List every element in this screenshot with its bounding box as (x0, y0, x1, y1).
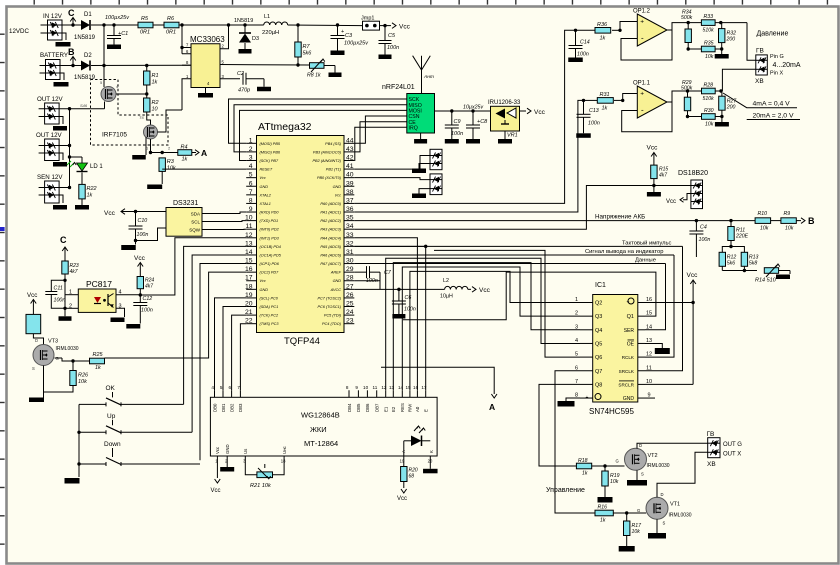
svg-text:R3: R3 (167, 159, 175, 165)
svg-text:+: + (640, 91, 644, 98)
wire battery-voltage net B (354, 213, 755, 222)
switch OK (79, 385, 184, 406)
svg-text:AREF: AREF (330, 271, 342, 275)
svg-text:38: 38 (346, 189, 354, 196)
wire IC1 pin15 Q1 (403, 272, 656, 320)
wire MOSI to pin3 (240, 110, 407, 160)
svg-text:PA4 (ADC4): PA4 (ADC4) (320, 236, 341, 240)
svg-text:RCLK: RCLK (622, 355, 635, 360)
svg-text:100n: 100n (387, 45, 399, 51)
svg-text:XTAL1: XTAL1 (259, 202, 271, 206)
svg-text:L1: L1 (264, 14, 270, 20)
wire OP1.1 output (667, 89, 702, 102)
svg-text:(SCL) PC0: (SCL) PC0 (260, 296, 279, 300)
svg-text:OK: OK (106, 385, 116, 392)
wire AVCC row (354, 288, 444, 291)
node C (68, 8, 76, 27)
svg-text:510k: 510k (703, 96, 715, 102)
svg-text:PB1 (T1): PB1 (T1) (326, 168, 342, 172)
net flag A arrow (381, 367, 497, 412)
svg-text:+: + (627, 299, 630, 305)
wire IC1 pin5 (434, 250, 580, 357)
svg-text:9: 9 (355, 385, 358, 390)
resistor R16 1k (595, 505, 613, 524)
svg-text:R28: R28 (704, 83, 714, 89)
wire MC pin7 pin6 riser (180, 25, 191, 54)
svg-text:DB6: DB6 (365, 403, 370, 412)
svg-text:29: 29 (346, 266, 354, 273)
svg-text:D2: D2 (84, 53, 92, 59)
resistor R15 4k7 (651, 165, 669, 187)
svg-text:RESET: RESET (260, 168, 273, 172)
svg-text:Управление: Управление (546, 487, 585, 494)
power Vcc buzzer (31, 300, 37, 315)
svg-text:C9: C9 (454, 119, 461, 125)
wire pin40 to ISP2 (354, 178, 430, 180)
wire PC817 pin3 ground (111, 308, 125, 322)
svg-text:AVCC: AVCC (330, 288, 342, 292)
wire OP1.1 feedback (622, 102, 672, 132)
svg-text:1k: 1k (600, 518, 606, 524)
wire R26 to source node (44, 386, 74, 393)
svg-text:MC33063: MC33063 (190, 35, 225, 44)
wire pin13 to OK switch (184, 246, 247, 404)
svg-text:Vcc: Vcc (647, 145, 659, 152)
wire OUT12V lower pin (59, 145, 69, 147)
resistor R13 5k8 (731, 247, 759, 271)
capacitor C13 100n (576, 99, 600, 138)
wire CSN to pin44 (354, 116, 407, 143)
svg-text:Q8: Q8 (595, 382, 602, 388)
connector pressure GV (755, 48, 801, 86)
svg-text:5: 5 (249, 172, 253, 179)
svg-text:Uнс: Uнс (282, 446, 287, 454)
svg-text:VT1: VT1 (670, 502, 680, 508)
svg-text:PA1 (ADC1): PA1 (ADC1) (320, 211, 341, 215)
svg-text:10: 10 (152, 107, 159, 113)
svg-text:(ICP1) PD6: (ICP1) PD6 (260, 262, 280, 266)
svg-text:R6: R6 (167, 16, 175, 22)
svg-text:PC7 (TOSC2): PC7 (TOSC2) (317, 296, 341, 300)
svg-text:7: 7 (249, 189, 253, 196)
resistor R5 0R1 (138, 16, 153, 36)
LED backlight in LCD (404, 426, 431, 446)
svg-text:C13: C13 (589, 108, 599, 114)
ground R19 (598, 486, 613, 503)
svg-text:35: 35 (346, 215, 354, 222)
wire Q2 gate (158, 110, 183, 132)
capacitor C11 100n (45, 280, 65, 308)
svg-text:ХВ: ХВ (755, 78, 764, 85)
ground PC817 input (59, 307, 72, 321)
wire PC817 pin4 to R24 (116, 289, 142, 297)
svg-text:S: S (32, 366, 35, 371)
transistor Q2 IRF7105b (144, 125, 158, 139)
svg-text:IRML0030: IRML0030 (669, 513, 692, 519)
wire LCD Vcc pin1 (211, 456, 221, 494)
antenna Ant (413, 56, 434, 94)
svg-text:Vcc: Vcc (260, 176, 266, 180)
svg-text:100n: 100n (577, 52, 589, 58)
wire MC pin1 (182, 79, 191, 110)
svg-text:R1: R1 (152, 73, 159, 79)
svg-text:26: 26 (346, 292, 354, 299)
svg-text:Q5: Q5 (595, 341, 602, 347)
sensor DS18B20 (678, 170, 708, 209)
svg-text:SER: SER (624, 328, 635, 334)
svg-text:(TXD) PD1: (TXD) PD1 (260, 219, 279, 223)
svg-text:Напряжение АКБ: Напряжение АКБ (595, 213, 645, 220)
svg-text:1N5819: 1N5819 (74, 35, 96, 41)
wire D1-D2 tie (103, 25, 105, 66)
svg-text:E2: E2 (391, 406, 396, 412)
trimmer R14 510 (755, 264, 790, 284)
svg-text:40: 40 (346, 172, 354, 179)
ground R22 (81, 199, 83, 205)
svg-text:SEN 12V: SEN 12V (37, 174, 63, 181)
svg-text:510k: 510k (703, 28, 715, 34)
svg-text:S: S (641, 472, 644, 477)
svg-text:C7: C7 (384, 270, 392, 276)
transistor VT2 IRML0030 (616, 443, 670, 477)
dashed box IRF7105 (91, 80, 169, 146)
svg-text:(MOSI) PB5: (MOSI) PB5 (260, 142, 281, 146)
capacitor C5 100n (379, 26, 400, 59)
wire IC1 pin10 SRCLR (645, 383, 693, 385)
capacitor C1 100u25v (105, 15, 130, 49)
svg-text:R14 510: R14 510 (755, 278, 777, 284)
capacitor C6 100n (392, 289, 416, 318)
svg-text:(OC1A) PD5: (OC1A) PD5 (260, 253, 282, 257)
power Vcc opto (27, 292, 37, 299)
wire IC1 pin6 to R16 (555, 371, 595, 513)
wire OP1.2 feedback (621, 30, 672, 60)
wire IC1 pin11 clock riser (645, 246, 683, 370)
buzzer BZ1 (26, 314, 41, 333)
svg-text:32: 32 (346, 240, 354, 247)
resistor R3 10k (159, 158, 176, 172)
svg-text:OP1.1: OP1.1 (633, 81, 651, 87)
svg-text:12VDC: 12VDC (9, 28, 29, 35)
svg-text:1: 1 (249, 137, 253, 144)
svg-text:1k: 1k (582, 471, 588, 477)
svg-text:PC6 (TOSC1): PC6 (TOSC1) (317, 305, 341, 309)
wire SCK to pin1 (229, 99, 407, 143)
svg-text:11: 11 (373, 385, 378, 390)
svg-text:Сигнал вывода на индикатор: Сигнал вывода на индикатор (585, 249, 663, 255)
capacitor C12 100n (126, 295, 153, 329)
svg-text:+: + (341, 29, 344, 35)
svg-text:ХВ: ХВ (707, 461, 716, 468)
wire IN12V to D1 (62, 24, 81, 26)
wire pin41 to ISP connector (354, 156, 430, 170)
svg-text:R9: R9 (784, 211, 791, 217)
svg-text:100n: 100n (451, 131, 463, 137)
trimmer R21 10k (245, 456, 284, 489)
wire latch net (354, 249, 674, 255)
capacitor C9 100n (445, 111, 463, 144)
svg-text:DB3: DB3 (238, 403, 243, 412)
svg-text:R18: R18 (578, 458, 588, 464)
svg-text:8: 8 (346, 385, 349, 390)
svg-text:VT3: VT3 (48, 339, 58, 345)
svg-text:PC817: PC817 (86, 279, 112, 289)
svg-text:SQW: SQW (189, 228, 201, 233)
svg-text:IRQ: IRQ (409, 126, 418, 132)
svg-text:18: 18 (245, 283, 253, 290)
svg-text:(MISO) PB6: (MISO) PB6 (260, 150, 281, 154)
resistor R20 68 (397, 441, 418, 502)
ground R3 (147, 172, 162, 190)
resistor R18 1k (576, 458, 591, 477)
callout 4mA 20mA (723, 93, 800, 120)
svg-text:4: 4 (211, 385, 214, 390)
svg-text:Q3: Q3 (595, 314, 602, 320)
wire pin34 to DS18B20 (354, 186, 654, 230)
ground R32 R35 (721, 49, 723, 54)
diode D3 1N5819 (234, 18, 259, 54)
svg-text:-: - (641, 106, 644, 115)
svg-text:GND: GND (333, 279, 342, 283)
resistor R31 1k (584, 92, 614, 112)
svg-text:41: 41 (346, 163, 354, 170)
svg-text:Vcc: Vcc (260, 279, 266, 283)
svg-text:OUT G: OUT G (723, 442, 742, 448)
svg-text:C14: C14 (580, 40, 590, 46)
ground ISP1 (412, 164, 430, 174)
wire VIN to Q1 (103, 66, 105, 88)
svg-text:OP1.2: OP1.2 (633, 9, 651, 15)
svg-text:0R1: 0R1 (140, 30, 150, 36)
svg-text:Pin X: Pin X (770, 71, 783, 77)
resistor R22 1k (79, 173, 97, 199)
wire IRQ to pin42 (354, 127, 407, 160)
wire IC1 pin4 to LCD E1 (386, 258, 580, 390)
connector ISP1 (430, 149, 442, 169)
wire DS3231 gnd pin (136, 228, 167, 241)
svg-text:1k: 1k (152, 80, 158, 86)
svg-text:500k: 500k (681, 15, 693, 21)
svg-text:37: 37 (346, 197, 354, 204)
op-amp OP1.1 (633, 81, 667, 119)
svg-text:100n: 100n (141, 308, 153, 314)
wire R2 to Q2 (139, 112, 151, 125)
wire pin20 to LCD DB1 (223, 307, 246, 391)
svg-text:5: 5 (220, 385, 223, 390)
svg-text:Up: Up (107, 413, 116, 420)
svg-text:PA6 (ADC6): PA6 (ADC6) (320, 253, 341, 257)
IC U1 ATtmega32 TQFP44 (245, 121, 354, 347)
LCD WG12864B (210, 385, 437, 464)
IC MC33063 (186, 35, 225, 88)
svg-text:B: B (68, 47, 75, 57)
svg-text:1k: 1k (602, 106, 608, 112)
wire IC1 pin3 to LCD E2 (393, 263, 580, 391)
svg-text:1k: 1k (600, 36, 606, 42)
svg-text:10k: 10k (78, 379, 87, 385)
ground IN12V (56, 33, 71, 47)
resistor R27 200 (715, 89, 737, 116)
wire R18 to VT2 gate (592, 464, 625, 467)
svg-text:(INT0) PD2: (INT0) PD2 (260, 228, 280, 232)
svg-text:28: 28 (346, 275, 354, 282)
capacitor C4 100n (689, 221, 710, 257)
svg-text:ГВ: ГВ (756, 48, 764, 55)
svg-text:K: K (429, 450, 434, 453)
svg-text:GND: GND (260, 288, 269, 292)
svg-text:7: 7 (237, 385, 240, 390)
wire buzzer to VT3 drain (33, 334, 43, 345)
svg-text:D3: D3 (252, 36, 259, 42)
svg-text:B: B (808, 216, 815, 226)
wire rail to L1 (179, 23, 264, 26)
svg-text:10k: 10k (167, 166, 176, 172)
wire MC pin8 VIN (182, 64, 191, 66)
ground OUT12V lower (53, 153, 67, 167)
svg-text:Vcc: Vcc (215, 446, 220, 454)
wire PC817 pin1 (65, 294, 78, 296)
svg-text:4mA = 0,4 V: 4mA = 0,4 V (753, 101, 791, 108)
wire pin14 to Up switch (192, 255, 246, 432)
svg-text:4k7: 4k7 (145, 284, 153, 290)
node C lower (60, 235, 68, 261)
svg-text:9: 9 (249, 206, 253, 213)
svg-text:BATTERY: BATTERY (40, 52, 68, 59)
wire DS18B20 Vcc (666, 194, 691, 206)
resistor R7 5k6 (295, 25, 313, 65)
svg-text:МТ-12864: МТ-12864 (304, 439, 338, 448)
svg-text:C2: C2 (237, 71, 244, 77)
svg-text:+C8: +C8 (477, 119, 488, 125)
ground R27 R30 (721, 117, 723, 123)
wire Jmp1 to Vcc (380, 23, 411, 31)
svg-text:Vcc: Vcc (666, 199, 676, 205)
svg-text:PB0 (XCK/T0): PB0 (XCK/T0) (317, 176, 342, 180)
ground R15 node (653, 186, 655, 193)
wire MC pin2 to rail (220, 25, 229, 49)
svg-text:R2: R2 (152, 100, 159, 106)
svg-text:5k8: 5k8 (749, 261, 757, 267)
wire pin16 to buzzer net (105, 272, 247, 358)
svg-text:10: 10 (363, 385, 369, 390)
capacitor C10 100n (129, 212, 149, 245)
svg-text:R35: R35 (704, 41, 714, 47)
resistor R23 4k7 (62, 261, 79, 309)
svg-text:Jmp1: Jmp1 (361, 16, 374, 22)
resistor R6 0R1 (153, 16, 179, 36)
svg-text:23: 23 (346, 318, 354, 325)
resistor R33 510k (701, 14, 715, 34)
wire pin22 to LCD DB3 (240, 324, 246, 391)
svg-text:100n: 100n (54, 298, 66, 304)
transistor VT3 IRML0030 (32, 338, 79, 371)
svg-text:-: - (641, 34, 644, 43)
svg-text:DB2: DB2 (229, 403, 234, 412)
wire pin36 to OP1.1 input (354, 100, 583, 212)
svg-text:DS18B20: DS18B20 (678, 170, 708, 177)
svg-text:SN74HC595: SN74HC595 (589, 407, 634, 416)
resistor R34 500k (681, 10, 693, 51)
jumper Jmp1 (361, 16, 380, 31)
wire L1 to Jmp1 (288, 23, 363, 26)
svg-text:VT2: VT2 (648, 453, 658, 459)
svg-text:C5: C5 (388, 33, 396, 39)
svg-text:R4: R4 (181, 145, 188, 151)
wire R15 to DS18B20 (654, 185, 691, 187)
svg-text:SRCLR: SRCLR (618, 382, 634, 387)
svg-text:R/W: R/W (408, 403, 413, 412)
svg-text:D: D (639, 443, 642, 448)
svg-text:36: 36 (346, 206, 354, 213)
svg-text:3: 3 (249, 154, 253, 161)
svg-text:DB5: DB5 (356, 403, 361, 412)
svg-text:D1: D1 (84, 12, 92, 18)
wire to pressure conn X (722, 69, 755, 91)
node B (68, 47, 76, 67)
wire IC1 pin9 (645, 397, 655, 399)
svg-text:25: 25 (346, 301, 354, 308)
wire OP1.2 +input (612, 22, 637, 32)
svg-text:100n: 100n (699, 237, 711, 243)
resistor R30 10k (688, 108, 724, 128)
svg-text:Vcc: Vcc (687, 272, 699, 279)
ground OUT12V upper (53, 117, 67, 131)
svg-text:A: A (489, 402, 495, 412)
svg-text:D: D (35, 338, 38, 343)
svg-text:8: 8 (249, 197, 253, 204)
wire pin37 to OP1.2 input (354, 30, 575, 203)
svg-text:220Е: 220Е (735, 234, 749, 240)
resistor R29 500k (681, 80, 693, 118)
wire pin32 to LCD E (354, 246, 425, 390)
wire BATTERY to D2 (60, 65, 81, 67)
svg-text:Pin G: Pin G (770, 54, 784, 60)
svg-text:4...20mA: 4...20mA (773, 62, 801, 69)
svg-text:R8 1k: R8 1k (307, 73, 321, 79)
LED LD1 (67, 157, 103, 172)
wire VT1 drain to OUT X (657, 452, 708, 497)
svg-text:IRML0030: IRML0030 (56, 346, 79, 352)
svg-text:5k6: 5k6 (727, 261, 735, 267)
svg-text:OE: OE (627, 341, 635, 347)
wire VT3 gate (55, 358, 90, 363)
ground SEN12V (53, 195, 67, 210)
wire MC pin5 row (220, 63, 310, 66)
connector ISP2 (430, 174, 442, 195)
module nRF24L01 (382, 84, 435, 133)
ground LCD pin20 (423, 456, 438, 473)
wire pin19 to LCD DB0 (215, 298, 247, 390)
svg-text:10k: 10k (705, 122, 714, 128)
wire divider bottom (722, 269, 757, 272)
svg-text:Us: Us (243, 449, 248, 454)
IC DS3231 (166, 200, 202, 236)
resistor R11 220E (728, 221, 749, 249)
svg-text:E: E (424, 409, 429, 412)
svg-text:(OC1B) PD4: (OC1B) PD4 (260, 245, 281, 249)
svg-text:R16: R16 (598, 505, 608, 511)
svg-text:10k: 10k (760, 226, 769, 232)
svg-text:IN 12V: IN 12V (43, 13, 63, 20)
transistor Q1 IRF7105a (100, 80, 119, 102)
svg-text:30: 30 (346, 258, 354, 265)
svg-text:10µH: 10µH (440, 294, 453, 300)
svg-text:ATtmega32: ATtmega32 (258, 121, 312, 133)
svg-text:SDA: SDA (191, 212, 200, 217)
svg-text:PA2 (ADC2): PA2 (ADC2) (320, 219, 341, 223)
wire Q2 drain to A net (146, 139, 178, 154)
optocoupler PC817 (69, 279, 122, 312)
